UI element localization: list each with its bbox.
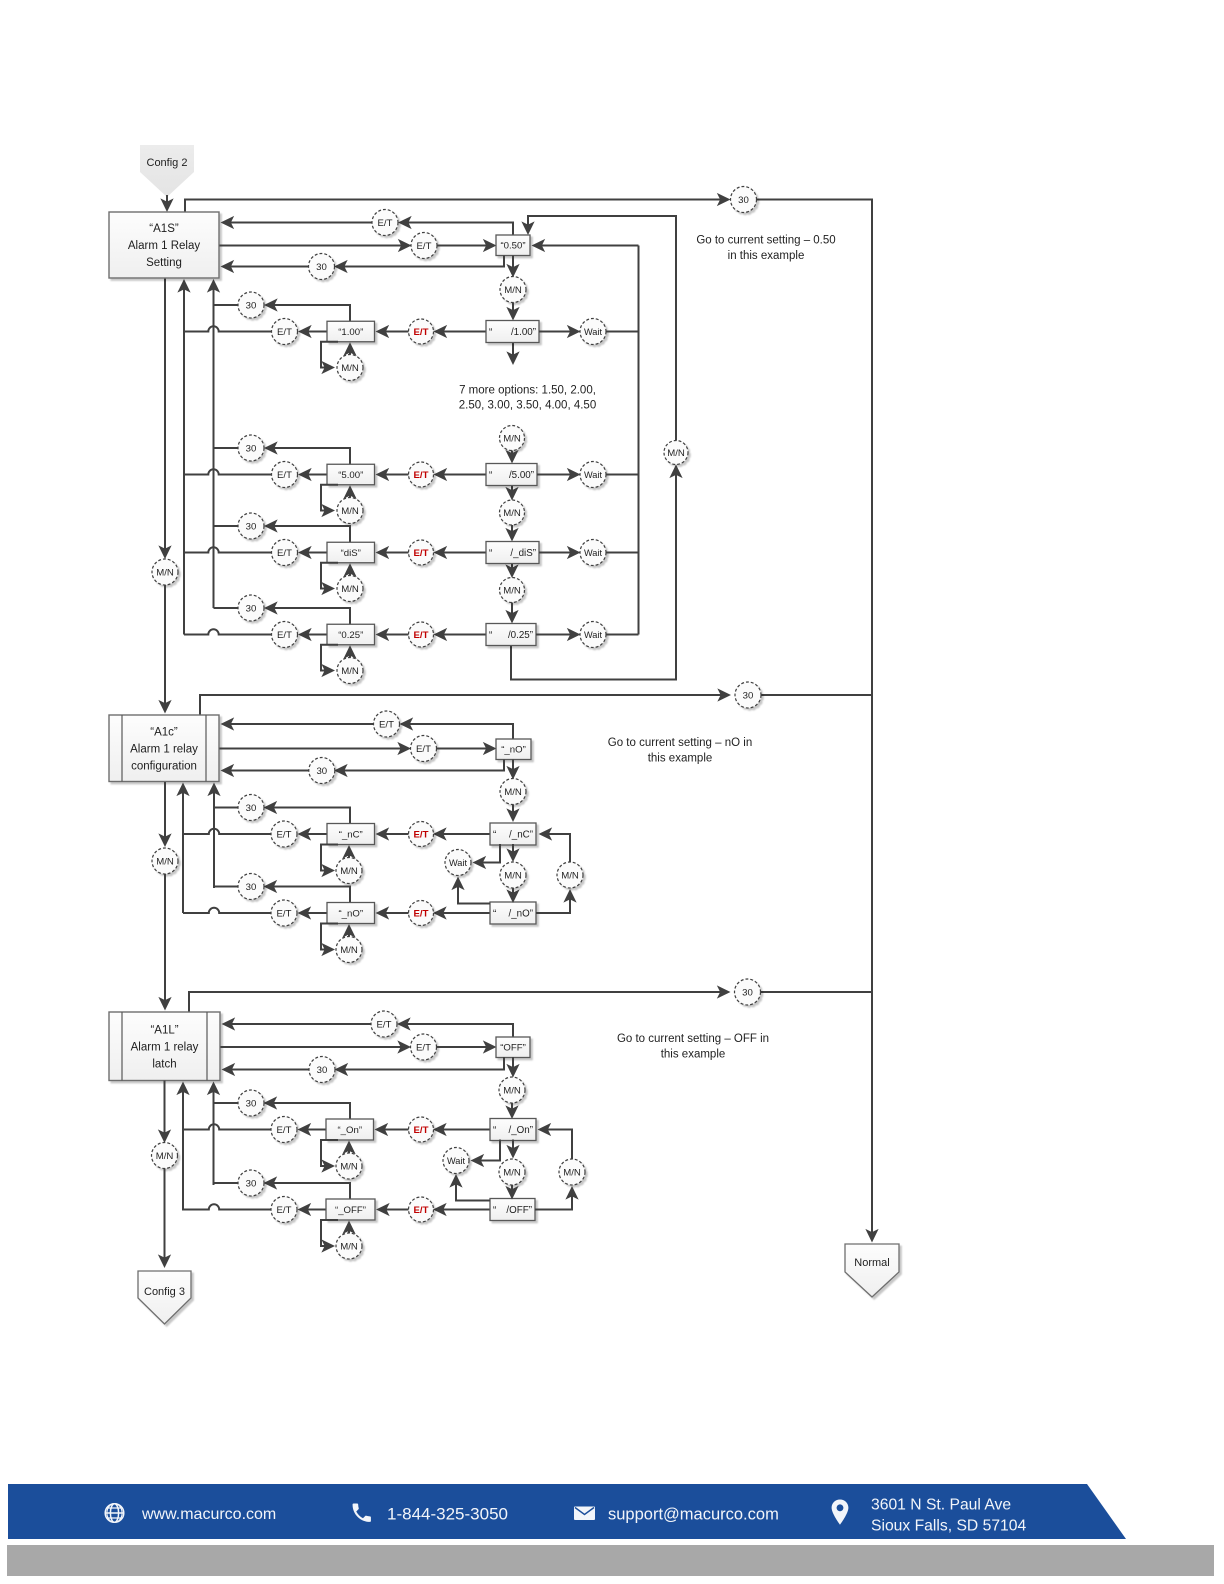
svg-text:“: “ bbox=[489, 327, 492, 338]
circle M/N (left, S1 to S2) bbox=[152, 559, 178, 585]
circle Wait (diS row) bbox=[580, 540, 606, 566]
wire 30 to A1L right bbox=[224, 1069, 310, 1071]
wire /_nO right to wrap M/N (S2) bbox=[536, 891, 570, 913]
svg-text:30: 30 bbox=[317, 1065, 328, 1076]
box value 0.50 (current setting) bbox=[496, 235, 530, 256]
circle M/N (left, S2 to S3) bbox=[152, 848, 178, 874]
circle E/T (_OFF row) bbox=[271, 1197, 297, 1223]
wire M/N to /1.00 box bbox=[512, 303, 514, 319]
wire A1c to E/T (S2 enter) bbox=[220, 748, 410, 750]
wire display to Wait (5.00) bbox=[537, 474, 579, 476]
wire E/T to A1S right bbox=[223, 222, 373, 224]
circle E/T (S1 enter) bbox=[411, 233, 437, 259]
svg-text:M/N: M/N bbox=[504, 870, 522, 881]
wire _nO(2) box top to 30 bbox=[266, 887, 351, 903]
wire /_nC bottom to Wait bbox=[475, 844, 501, 863]
circle E/T (S3 enter) bbox=[411, 1034, 437, 1060]
circle E/T red (5.00 row) bbox=[409, 462, 434, 487]
circle E/T (1.00 row) bbox=[272, 319, 298, 345]
svg-text:E/T: E/T bbox=[277, 327, 292, 338]
wire 30 to collector rail (5.00) bbox=[214, 447, 239, 449]
svg-text:“: “ bbox=[493, 1125, 496, 1136]
circle 30 (diS row) bbox=[238, 513, 264, 539]
svg-text:Setting: Setting bbox=[146, 257, 182, 269]
svg-text:“A1c”: “A1c” bbox=[150, 726, 178, 738]
wire loop M/N into value box (_nC) bbox=[348, 847, 350, 858]
wire 1.00 box top to 30 circle bbox=[266, 305, 350, 321]
box value _OFF bbox=[326, 1199, 375, 1220]
wire S1: A1S top to 30 circle bbox=[185, 200, 729, 213]
wire OFF bottom to 30 bbox=[337, 1057, 505, 1070]
svg-text:“_nO”: “_nO” bbox=[501, 745, 526, 756]
wire E/T to collector rail (1.00) with hop bbox=[184, 326, 272, 331]
svg-text:“: “ bbox=[493, 909, 496, 920]
wire _On box to E/T bbox=[300, 1129, 327, 1131]
circle M/N (left, S3 to Config3) bbox=[152, 1143, 178, 1169]
wire display to red E/T (_nO(2)) bbox=[435, 912, 490, 914]
box display 5.00 bbox=[486, 464, 537, 486]
wire _nO bottom to 30 bbox=[336, 760, 504, 771]
svg-text:this example: this example bbox=[661, 1049, 726, 1061]
svg-text:30: 30 bbox=[316, 262, 327, 273]
wire 30 to collector rail (0.25) bbox=[214, 607, 239, 609]
wire 0.50 to M/N chain bbox=[512, 256, 514, 276]
circle 30 (S1 timeout, top right) bbox=[731, 187, 757, 213]
wire red E/T to value box (1.00) bbox=[378, 331, 409, 333]
box value 5.00 bbox=[327, 464, 375, 485]
wire E/T to OFF box bbox=[437, 1046, 495, 1048]
wire 0.50 bottom to 30 circle bbox=[336, 256, 504, 267]
wire value box loop to M/N (diS) bbox=[321, 563, 338, 589]
svg-text:E/T: E/T bbox=[414, 1125, 429, 1136]
wire loop M/N into value box (_OFF) bbox=[348, 1223, 350, 1234]
svg-text:30: 30 bbox=[246, 1178, 257, 1189]
svg-text:30: 30 bbox=[742, 987, 753, 998]
circle E/T red (_nC) bbox=[409, 822, 434, 847]
box display _On bbox=[490, 1119, 536, 1141]
wire Wait to return rail (5.00) bbox=[606, 474, 639, 476]
wire 5.00 box top to 30 circle bbox=[266, 448, 350, 464]
wire _On box top to 30 bbox=[266, 1103, 351, 1119]
footer gray bar bbox=[7, 1545, 1214, 1576]
circle M/N (loop _nO(2)) bbox=[336, 937, 362, 963]
svg-text:30: 30 bbox=[246, 1098, 257, 1109]
wire S2 E/T collector rail into A1c bottom bbox=[182, 785, 184, 914]
circle Wait (0.25 row) bbox=[580, 622, 606, 648]
box display diS bbox=[486, 542, 539, 564]
wire S3 30 collector rail into A1L bottom bbox=[213, 1084, 215, 1186]
wire M/N to /OFF box bbox=[511, 1185, 513, 1198]
wire S3 E/T collector rail into A1L bottom bbox=[182, 1084, 184, 1211]
svg-text:E/T: E/T bbox=[277, 1205, 292, 1216]
svg-text:“: “ bbox=[489, 470, 492, 481]
svg-text:E/T: E/T bbox=[414, 548, 429, 559]
box display _OFF bbox=[490, 1199, 535, 1221]
wire E/T to collector (_nO(2)) with hop bbox=[183, 908, 271, 913]
svg-text:Config 2: Config 2 bbox=[147, 157, 188, 169]
circle 30 (S3 row OFF) bbox=[309, 1057, 335, 1083]
svg-text:M/N: M/N bbox=[340, 945, 358, 956]
svg-text:M/N: M/N bbox=[563, 1167, 581, 1178]
wire M/N to /0.25 box bbox=[511, 603, 513, 622]
wire 30 to collector (_nC) bbox=[214, 807, 238, 809]
svg-text:Wait: Wait bbox=[584, 630, 602, 640]
circle 30 (S1 row 0.50) bbox=[309, 254, 335, 280]
svg-text:E/T: E/T bbox=[414, 470, 429, 481]
svg-text:“: “ bbox=[489, 630, 492, 641]
svg-text:30: 30 bbox=[738, 195, 749, 206]
circle E/T (S1 top return) bbox=[372, 210, 398, 236]
box value diS bbox=[327, 542, 375, 563]
wire _nO top to E/T (S2 top) bbox=[402, 724, 514, 739]
svg-text:this example: this example bbox=[648, 753, 713, 765]
wire loop to M/N (_On) bbox=[321, 1140, 338, 1166]
pentagon Config 2 bbox=[140, 145, 194, 197]
wire display box to red E/T (0.25) bbox=[436, 634, 487, 636]
svg-text:E/T: E/T bbox=[277, 548, 292, 559]
wire wrap rail into 0.50 top bbox=[528, 216, 676, 441]
svg-text:E/T: E/T bbox=[377, 1019, 392, 1030]
svg-text:M/N: M/N bbox=[667, 448, 685, 459]
svg-text:M/N: M/N bbox=[561, 870, 579, 881]
svg-text:E/T: E/T bbox=[378, 218, 393, 229]
wire E/T to collector (_OFF) with hop bbox=[183, 1204, 271, 1209]
wire _OFF box to E/T bbox=[300, 1209, 327, 1211]
circle Wait (1.00 row) bbox=[580, 319, 606, 345]
wire E/T to _nO box bbox=[437, 748, 495, 750]
wire red E/T to value box (diS) bbox=[378, 552, 409, 554]
svg-text:/OFF”: /OFF” bbox=[506, 1205, 532, 1216]
circle E/T (_On row) bbox=[271, 1117, 297, 1143]
wire S1 E/T collector rail up into A1S bottom bbox=[183, 281, 185, 635]
wire /_nO to Wait (below) bbox=[458, 879, 490, 904]
circle 30 (_On row) bbox=[238, 1090, 264, 1116]
wire E/T to collector (_nC) with hop bbox=[183, 829, 271, 834]
wire arrow into Normal pentagon bbox=[871, 1230, 873, 1241]
svg-text:Wait: Wait bbox=[449, 858, 467, 868]
svg-text:Alarm 1 relay: Alarm 1 relay bbox=[131, 1041, 199, 1053]
svg-text:Wait: Wait bbox=[584, 470, 602, 480]
svg-text:7 more options: 1.50, 2.00,: 7 more options: 1.50, 2.00, bbox=[459, 385, 596, 397]
svg-text:Wait: Wait bbox=[584, 548, 602, 558]
svg-text:E/T: E/T bbox=[414, 630, 429, 641]
wire M/N down to Config 3 bbox=[164, 1169, 166, 1267]
svg-text:“: “ bbox=[489, 548, 492, 559]
wire S1 Wait return rail bbox=[638, 246, 640, 635]
svg-text:M/N: M/N bbox=[503, 508, 521, 519]
svg-text:E/T: E/T bbox=[277, 1125, 292, 1136]
wire value box loop to M/N (5.00) bbox=[321, 485, 338, 511]
circle M/N (chain /_diS->/0.25) bbox=[500, 578, 525, 603]
wire display box to red E/T (1.00) bbox=[436, 331, 487, 333]
wire E/T to collector rail (5.00) with hop bbox=[184, 469, 272, 474]
svg-text:30: 30 bbox=[246, 803, 257, 814]
wire M/N to /_nO box bbox=[512, 888, 514, 901]
wire Wait to return rail (diS) bbox=[606, 552, 639, 554]
svg-text:/5.00”: /5.00” bbox=[509, 470, 534, 481]
wire wrap M/N into /_nC right bbox=[541, 834, 571, 862]
wire red E/T to value box (0.25) bbox=[378, 634, 409, 636]
circle 30 (_nC row) bbox=[238, 795, 264, 821]
wire _nO(2) box to E/T bbox=[300, 912, 328, 914]
wire diS box top to 30 circle bbox=[266, 526, 350, 542]
wire 30 to collector rail (diS) bbox=[214, 525, 239, 527]
svg-text:/1.00”: /1.00” bbox=[511, 327, 536, 338]
svg-text:M/N: M/N bbox=[340, 1241, 358, 1252]
wire display box to red E/T (diS) bbox=[436, 552, 487, 554]
svg-text:/_On”: /_On” bbox=[508, 1125, 533, 1136]
wire Wait rail into 0.50 right bbox=[534, 245, 639, 247]
svg-text:latch: latch bbox=[152, 1058, 176, 1070]
wire loop M/N up into value box (1.00) bbox=[349, 344, 351, 354]
wire value box loop to M/N (0.25) bbox=[321, 645, 338, 671]
svg-text:“_On”: “_On” bbox=[337, 1125, 362, 1136]
svg-text:E/T: E/T bbox=[414, 829, 429, 840]
icon globe bbox=[105, 1504, 124, 1523]
svg-text:M/N: M/N bbox=[504, 285, 522, 296]
circle M/N (chain /5.00->/_diS) bbox=[500, 500, 525, 525]
wire Wait to return rail (1.00) bbox=[606, 331, 639, 333]
circle E/T (_nC row) bbox=[271, 821, 297, 847]
wire E/T to 0.50 box bbox=[437, 245, 495, 247]
svg-text:2.50, 3.00, 3.50, 4.00, 4.50: 2.50, 3.00, 3.50, 4.00, 4.50 bbox=[459, 400, 596, 412]
svg-text:/0.25”: /0.25” bbox=[508, 630, 533, 641]
svg-text:Go to current setting – 0.50: Go to current setting – 0.50 bbox=[696, 235, 835, 247]
wire M/N to /_On box bbox=[511, 1103, 513, 1117]
wire /OFF right to wrap M/N (S3) bbox=[535, 1188, 572, 1210]
svg-text:Wait: Wait bbox=[447, 1156, 465, 1166]
box value 0.25 bbox=[327, 624, 375, 645]
wire E/T to A1c right bbox=[223, 723, 374, 725]
wire red E/T to value box (5.00) bbox=[378, 474, 409, 476]
box value _On bbox=[326, 1119, 374, 1140]
circle 30 (_nO(2) row) bbox=[238, 874, 264, 900]
svg-text:E/T: E/T bbox=[417, 241, 432, 252]
svg-text:Alarm 1 Relay: Alarm 1 Relay bbox=[128, 240, 200, 252]
wire /_On bottom to Wait bbox=[473, 1140, 501, 1161]
box display 1.00 bbox=[486, 321, 539, 343]
svg-text:“_nO”: “_nO” bbox=[338, 908, 363, 919]
svg-text:Wait: Wait bbox=[584, 327, 602, 337]
circle E/T (S3 top return) bbox=[371, 1011, 397, 1037]
svg-text:30: 30 bbox=[246, 443, 257, 454]
wire wrap rail up into M/N bbox=[675, 467, 677, 680]
svg-text:M/N: M/N bbox=[341, 666, 359, 677]
svg-text:Go to current setting – nO in: Go to current setting – nO in bbox=[608, 737, 752, 749]
svg-text:Alarm 1 relay: Alarm 1 relay bbox=[130, 743, 198, 755]
wire right-side return rail (30s timeout to Normal) bbox=[757, 200, 872, 1240]
wire 30 to collector (_OFF) bbox=[214, 1182, 238, 1184]
wire M/N to /_diS box bbox=[511, 525, 513, 540]
circle M/N (chain /_nC->/_nO) bbox=[500, 862, 526, 888]
svg-text:M/N: M/N bbox=[341, 584, 359, 595]
wire wrap M/N into /_On right bbox=[540, 1130, 573, 1160]
svg-text:www.macurco.com: www.macurco.com bbox=[141, 1506, 276, 1523]
wire S3 30-line join to right rail bbox=[761, 991, 874, 993]
wire red E/T to value box (_On) bbox=[377, 1129, 409, 1131]
circle 30 (S3 timeout, right) bbox=[735, 979, 761, 1005]
svg-text:“: “ bbox=[493, 830, 496, 841]
svg-text:E/T: E/T bbox=[414, 1205, 429, 1216]
svg-text:“: “ bbox=[493, 1205, 496, 1216]
svg-text:3601 N St. Paul Ave: 3601 N St. Paul Ave bbox=[871, 1497, 1011, 1514]
wire S1 30-collector rail up into A1S bottom bbox=[213, 281, 215, 608]
svg-text:configuration: configuration bbox=[131, 760, 197, 772]
svg-text:M/N: M/N bbox=[341, 506, 359, 517]
svg-text:30: 30 bbox=[743, 690, 754, 701]
pentagon Config 3 bbox=[138, 1271, 191, 1324]
svg-text:“5.00”: “5.00” bbox=[338, 470, 363, 481]
wire 30 to A1S right bbox=[223, 266, 309, 268]
wire loop M/N up into value box (diS) bbox=[349, 565, 351, 575]
circle 30 (S2 timeout, right) bbox=[735, 682, 761, 708]
wire 30 to collector rail (1.00) bbox=[214, 304, 239, 306]
svg-text:“A1S”: “A1S” bbox=[149, 223, 179, 235]
wire loop to M/N (_nO(2)) bbox=[321, 924, 338, 950]
wire S2 30 collector rail into A1c bottom bbox=[213, 785, 215, 889]
svg-text:M/N: M/N bbox=[503, 1085, 521, 1096]
svg-text:Config 3: Config 3 bbox=[144, 1286, 185, 1298]
svg-text:E/T: E/T bbox=[416, 1042, 431, 1053]
wire display to red E/T (_OFF) bbox=[435, 1209, 490, 1211]
wire OFF to M/N chain (S3) bbox=[512, 1057, 514, 1076]
box value _nO(2) bbox=[327, 903, 375, 924]
wire display box to red E/T (5.00) bbox=[436, 474, 487, 476]
box value 1.00 bbox=[327, 321, 375, 342]
svg-text:M/N: M/N bbox=[503, 1167, 521, 1178]
svg-text:M/N: M/N bbox=[340, 1161, 358, 1172]
wire 5.00 box to E/T bbox=[300, 474, 327, 476]
box display _nC bbox=[490, 823, 536, 845]
svg-text:30: 30 bbox=[246, 300, 257, 311]
wire /1.00 down to more options (dangling) bbox=[512, 342, 514, 363]
circle E/T (0.25 row) bbox=[272, 622, 298, 648]
wire E/T to collector rail (diS) with hop bbox=[184, 547, 272, 552]
circle E/T (5.00 row) bbox=[272, 462, 298, 488]
svg-text:“0.25”: “0.25” bbox=[338, 630, 363, 641]
svg-text:M/N: M/N bbox=[156, 856, 174, 867]
wire display to red E/T (_nC) bbox=[435, 833, 490, 835]
wire /_diS to M/N chain bbox=[511, 564, 513, 577]
wire /5.00 to M/N chain bbox=[511, 486, 513, 499]
box A1S Alarm 1 Relay Setting bbox=[109, 212, 219, 278]
svg-text:/_nC”: /_nC” bbox=[509, 830, 533, 841]
wire A1L to E/T (S3 enter) bbox=[221, 1046, 410, 1048]
circle M/N (loop 0.25) bbox=[337, 658, 363, 684]
svg-text:E/T: E/T bbox=[414, 908, 429, 919]
wire A1S to E/T (enter) bbox=[220, 245, 410, 247]
circle E/T red (_nO(2)) bbox=[409, 901, 434, 926]
svg-text:support@macurco.com: support@macurco.com bbox=[608, 1506, 779, 1524]
svg-text:M/N: M/N bbox=[504, 787, 522, 798]
svg-text:E/T: E/T bbox=[414, 327, 429, 338]
svg-text:30: 30 bbox=[246, 603, 257, 614]
wire 0.50 top to E/T (top) bbox=[400, 223, 513, 236]
wire loop M/N into value box (_On) bbox=[348, 1143, 350, 1154]
circle M/N (loop _OFF) bbox=[336, 1233, 362, 1259]
svg-text:E/T: E/T bbox=[277, 470, 292, 481]
svg-text:1-844-325-3050: 1-844-325-3050 bbox=[387, 1505, 508, 1524]
svg-text:30: 30 bbox=[316, 766, 327, 777]
circle E/T red (0.25 row) bbox=[409, 622, 434, 647]
svg-text:/_nO”: /_nO” bbox=[508, 909, 533, 920]
circle E/T red (1.00 row) bbox=[409, 319, 434, 344]
box value OFF (current) bbox=[496, 1037, 530, 1058]
wire display to Wait (diS) bbox=[539, 552, 579, 554]
svg-text:E/T: E/T bbox=[277, 829, 292, 840]
circle M/N (loop _nC) bbox=[336, 858, 362, 884]
box A1c Alarm 1 relay configuration bbox=[109, 715, 219, 782]
wire display to Wait (0.25) bbox=[536, 634, 579, 636]
circle M/N (chain OFF->/_On) bbox=[499, 1077, 525, 1103]
svg-text:“0.50”: “0.50” bbox=[500, 241, 525, 252]
wire M/N down to A1L top bbox=[164, 874, 166, 1009]
wire loop M/N up into value box (0.25) bbox=[349, 647, 351, 657]
footer blue banner bbox=[8, 1484, 1126, 1539]
wire A1L top to 30 circle (S3) bbox=[189, 992, 729, 1011]
wire display to red E/T (_On) bbox=[435, 1129, 490, 1131]
wire A1S bottom down to M/N bbox=[164, 279, 166, 558]
circle 30 (5.00 row) bbox=[238, 435, 264, 461]
svg-text:“1.00”: “1.00” bbox=[338, 327, 363, 338]
circle M/N (chain /_On->/OFF) bbox=[499, 1159, 525, 1185]
svg-text:E/T: E/T bbox=[277, 908, 292, 919]
circle E/T (_nO(2) row) bbox=[271, 900, 297, 926]
svg-text:E/T: E/T bbox=[379, 719, 394, 730]
circle E/T red (_OFF) bbox=[409, 1197, 434, 1222]
circle E/T (diS row) bbox=[272, 540, 298, 566]
svg-text:“diS”: “diS” bbox=[341, 548, 361, 559]
circle M/N (chain _nO->/_nC) bbox=[500, 779, 526, 805]
wire _nO to M/N chain (S2) bbox=[512, 760, 514, 778]
icon location pin bbox=[832, 1500, 849, 1525]
wire Wait to return rail (0.25) bbox=[606, 634, 639, 636]
box value _nO (current) bbox=[496, 739, 531, 760]
svg-text:M/N: M/N bbox=[503, 433, 521, 444]
svg-text:30: 30 bbox=[246, 882, 257, 893]
circle M/N (chain above /5.00) bbox=[500, 426, 525, 451]
wire A1c top to 30 circle (S2) bbox=[200, 695, 729, 714]
svg-text:30: 30 bbox=[246, 521, 257, 532]
wire E/T to A1L right bbox=[224, 1023, 372, 1025]
wire /_nC to M/N chain (S2) bbox=[512, 844, 514, 860]
svg-text:“OFF”: “OFF” bbox=[500, 1043, 526, 1054]
svg-text:“A1L”: “A1L” bbox=[150, 1024, 178, 1036]
circle M/N (chain 0.50->/1.00) bbox=[500, 277, 526, 303]
wire 30 to A1c right bbox=[223, 770, 309, 772]
circle 30 (S2 row _nO) bbox=[309, 758, 335, 784]
circle M/N (loop 1.00) bbox=[337, 355, 363, 381]
wire E/T to collector rail (0.25) with hop bbox=[184, 629, 272, 634]
svg-text:Normal: Normal bbox=[854, 1257, 889, 1269]
wire /_On to M/N chain (S3) bbox=[512, 1140, 514, 1157]
wire M/N to /5.00 box bbox=[511, 451, 513, 462]
wire M/N down to A1c top bbox=[164, 585, 166, 712]
circle M/N (S2 wrap) bbox=[557, 862, 583, 888]
box display 0.25 bbox=[486, 624, 536, 646]
wire M/N to /_nC box bbox=[512, 805, 514, 821]
svg-text:E/T: E/T bbox=[416, 744, 431, 755]
wire red E/T to value box (_OFF) bbox=[378, 1209, 409, 1211]
wire 0.25 box to E/T bbox=[300, 634, 327, 636]
circle 30 (1.00 row) bbox=[238, 292, 264, 318]
wire /OFF to Wait (below) bbox=[456, 1176, 490, 1201]
wire /0.25 bottom to wrap rail bbox=[511, 467, 676, 680]
box value _nC bbox=[327, 824, 375, 845]
wire _nC box to E/T bbox=[300, 833, 328, 835]
wire OFF top to E/T (S3 top) bbox=[399, 1024, 513, 1037]
svg-text:M/N: M/N bbox=[156, 1151, 174, 1162]
